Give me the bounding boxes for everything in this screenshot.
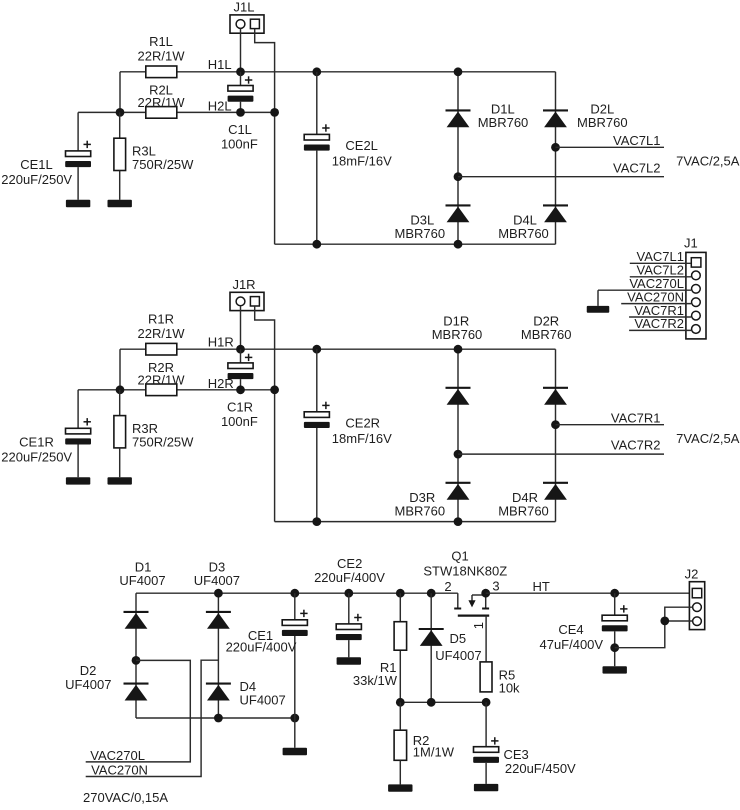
svg-text:750R/25W: 750R/25W [132,435,194,450]
resistor R1 [353,593,407,702]
svg-text:220uF/400V: 220uF/400V [226,640,297,655]
svg-text:270VAC/0,15A: 270VAC/0,15A [83,790,168,805]
junction bottom rail/left column [454,240,463,249]
svg-text:R3L: R3L [132,143,156,158]
svg-text:MBR760: MBR760 [478,115,529,130]
resistor R2R [138,360,186,396]
capacitor CE3 [473,702,576,784]
junction bottom rail/D4 [214,714,223,723]
junction top rail/CE1 [290,589,299,598]
connector J2 pin1 (square) [692,588,701,597]
wire VAC270N tap [86,660,219,776]
svg-text:VAC270N: VAC270N [91,763,148,778]
wire H2R rail [120,389,275,391]
capacitor CE2L [304,72,392,244]
svg-text:1M/1W: 1M/1W [413,745,455,760]
wire J2 pin2 return [615,607,693,648]
capacitor C1L [221,72,258,152]
svg-text:H1L: H1L [208,57,232,72]
diode D2 [65,663,148,701]
svg-text:R1L: R1L [149,34,173,49]
svg-text:CE1L: CE1L [20,157,53,172]
svg-text:CE3: CE3 [504,747,529,762]
capacitor CE4 [539,593,627,666]
diode D3L [395,205,471,241]
diode D1R [432,313,483,404]
svg-text:100nF: 100nF [221,414,258,429]
svg-text:J1L: J1L [234,0,255,15]
svg-text:MBR760: MBR760 [395,503,446,518]
wire/net VAC7R1 to J1 pin5 [629,303,691,318]
junction H1R/CE2R [312,345,321,354]
connector J2 [685,566,705,629]
junction H2L/J1L-pin2 [270,108,279,117]
junction Q1 source/HT [481,589,490,598]
junction top rail/D3 column [214,589,223,598]
svg-text:UF4007: UF4007 [194,573,240,588]
svg-text:J1R: J1R [232,277,255,292]
wire/net VAC270N to J1 pin4 [621,289,691,304]
junction H1L/CE2L [312,67,321,76]
connector J1L [230,0,264,33]
wire left branch vertical [119,72,121,113]
wire bottom rail [136,717,295,719]
label 7VAC/2,5A [676,431,740,446]
svg-text:VAC7R1: VAC7R1 [611,411,661,426]
svg-text:220uF/450V: 220uF/450V [505,761,576,776]
junction top rail/R1 [396,589,405,598]
junction top rail/D5 [427,589,436,598]
svg-text:C1R: C1R [227,399,253,414]
wire/net VAC7R1 [556,411,665,426]
svg-text:CE2: CE2 [337,556,362,571]
wire/net VAC7R2 [458,438,664,454]
svg-text:STW18NK80Z: STW18NK80Z [423,564,507,579]
ground CE1 [283,748,307,755]
wire to CE1L [78,111,120,113]
resistor R3L [114,112,194,199]
connector J2 pins 2-3 (circles) [693,603,702,626]
diode D5 [419,593,482,702]
wire VAC270L to ground [597,290,599,306]
junction H1R/C1R [236,345,245,354]
resistor R3R [114,390,194,477]
wire left branch vertical [119,349,121,390]
svg-text:J2: J2 [685,566,699,581]
svg-text:3: 3 [492,578,499,593]
svg-text:18mF/16V: 18mF/16V [332,153,392,168]
junction bridge output VAC7R2 [454,450,463,459]
junction bottom rail/left column [454,517,463,526]
svg-text:C1L: C1L [228,122,252,137]
svg-text:MBR760: MBR760 [498,503,549,518]
connector J1 pins 2-6 (circles) [692,271,701,333]
wire/net VAC7L2 to J1 pin2 [630,263,691,278]
diode D3R [395,483,471,519]
resistor R1R [138,311,186,355]
connector J1R [230,277,264,310]
svg-text:UF4007: UF4007 [119,573,165,588]
svg-text:220uF/400V: 220uF/400V [314,570,385,585]
ground CE4 [603,666,627,673]
junction H2R/C1R [236,385,245,394]
capacitor C1R [221,349,258,429]
svg-text:D5: D5 [450,631,467,646]
wire top rail (bridge to Q1 gate) [136,592,458,594]
junction top rail/left column [454,345,463,354]
node H1R [208,335,234,350]
wire bridge column D3/D4 [217,593,219,718]
wire H1R rail [120,348,556,350]
svg-text:VAC270L: VAC270L [90,748,145,763]
diode D4L [498,205,568,241]
junction bottom rail/CE2R [312,517,321,526]
resistor R2L [138,83,186,119]
wire bridge left column [457,349,459,521]
svg-text:R3R: R3R [132,421,158,436]
ground CE3 [474,784,498,791]
node H2L [208,99,232,114]
ground R2 [388,784,412,791]
svg-text:750R/25W: 750R/25W [132,157,194,172]
svg-text:22R/1W: 22R/1W [138,373,186,388]
svg-text:CE2R: CE2R [345,416,380,431]
svg-text:22R/1W: 22R/1W [138,326,186,341]
junction J2 return [660,617,669,626]
capacitor CE1 [226,593,308,748]
svg-text:22R/1W: 22R/1W [138,95,186,110]
svg-text:VAC7L1: VAC7L1 [613,133,660,148]
wire/net VAC7R2 to J1 pin6 [629,316,691,331]
wire VAC270L tap [86,660,191,762]
diode D1L [446,102,529,130]
wire bottom rail [275,243,556,245]
transistor Q1 labels [423,549,507,579]
junction row/R5 [482,698,491,707]
junction CE4/J2 return [610,643,619,652]
svg-text:18mF/16V: 18mF/16V [332,431,392,446]
junction H2R/J1R-pin2 [270,385,279,394]
svg-text:220uF/250V: 220uF/250V [1,172,72,187]
capacitor CE2 [314,556,385,657]
resistor R5 [480,662,520,695]
wire/net VAC270L to J1 pin3 [598,276,691,291]
junction bridge output VAC7L1 [551,143,560,152]
junction D1/D2 (VAC270L tap) [132,656,141,665]
node H2R [208,376,234,391]
svg-text:HT: HT [533,579,550,594]
wire J1R pin2 down-right-down to bottom rail [255,306,275,522]
svg-text:220uF/250V: 220uF/250V [1,450,72,465]
junction H2L/C1L [236,108,245,117]
diode D1 [119,560,165,629]
label 7VAC/2,5A [676,153,740,168]
transistor Q1 channel bar [458,614,489,616]
diode D4R [498,483,568,519]
svg-text:VAC7R2: VAC7R2 [611,438,661,453]
svg-text:MBR760: MBR760 [395,226,446,241]
junction left branch [116,108,125,117]
svg-text:CE4: CE4 [558,622,583,637]
svg-text:22R/1W: 22R/1W [138,49,186,64]
wire H1L rail [120,71,556,73]
svg-text:UF4007: UF4007 [65,677,111,692]
junction top rail/left column [454,67,463,76]
connector J1 [684,236,706,339]
svg-text:D2: D2 [80,663,97,678]
svg-text:CE2L: CE2L [345,138,378,153]
wire/net HT [486,579,690,594]
wire to CE1R [78,389,120,391]
svg-text:J1: J1 [684,236,698,251]
svg-text:Q1: Q1 [451,549,468,564]
ground CE1R [66,477,90,484]
wire bridge column D1/D2 [135,593,137,718]
wire bridge right column [555,349,557,521]
node H1L [208,57,232,72]
resistor R1L [138,34,186,78]
svg-text:CE1R: CE1R [19,435,54,450]
junction bridge output VAC7L2 [454,172,463,181]
ground CE1L [66,200,90,207]
label 270VAC/0,15A [83,790,168,805]
wire J1L pin2 down-right-down to bottom rail [255,29,275,245]
svg-text:7VAC/2,5A: 7VAC/2,5A [676,153,740,168]
svg-text:UF4007: UF4007 [240,692,286,707]
net VAC270L [90,748,145,763]
ground at J1 VAC270L [587,306,610,313]
transistor Q1 gate lead (pin 1) [471,616,486,662]
wire J2 pin3 return [665,620,693,622]
svg-text:47uF/400V: 47uF/400V [539,637,603,652]
junction top rail/CE2 [344,589,353,598]
wire J1R pin1 to H1R [240,306,242,349]
diode D2L [543,102,628,130]
wire bridge left column [457,72,459,244]
svg-text:MBR760: MBR760 [498,226,549,241]
junction left branch [116,385,125,394]
svg-text:33k/1W: 33k/1W [353,673,398,688]
svg-text:MBR760: MBR760 [432,327,483,342]
wire bridge right column [555,72,557,244]
svg-text:VAC7L2: VAC7L2 [613,160,660,175]
wire bottom rail [275,521,556,523]
resistor R2 [394,702,455,784]
junction row/D5 [427,698,436,707]
transistor Q1 drain lead [454,593,461,608]
wire J1L pin1 to H1L [240,28,242,71]
capacitor CE1L [1,112,91,199]
pin 3 label [492,578,499,593]
transistor Q1 body arrow [468,595,485,607]
connector J1 pin1 (square) [691,258,701,267]
ground R3L [108,200,132,207]
wire/net VAC7L2 [458,160,664,176]
wire/net VAC7L1 [556,133,665,148]
junction H1L/C1L [236,67,245,76]
svg-text:MBR760: MBR760 [521,327,572,342]
svg-text:H1R: H1R [208,335,234,350]
net VAC270N [91,763,148,778]
junction row/R1 [396,698,405,707]
capacitor CE1R [1,390,91,477]
svg-text:1: 1 [471,622,486,629]
svg-text:2: 2 [444,579,451,594]
wire H2L rail [120,111,275,113]
junction bottom rail/CE2L [312,240,321,249]
diode D4 [206,679,286,708]
pin 2 label [444,579,451,594]
junction bridge output VAC7R1 [551,420,560,429]
ground CE2 [337,657,361,664]
junction bottom rail/CE1 [290,714,299,723]
ground R3R [108,477,132,484]
transistor Q1 source lead [482,593,489,608]
svg-text:7VAC/2,5A: 7VAC/2,5A [676,431,740,446]
diode D3 [194,560,240,629]
svg-text:R1R: R1R [148,311,174,326]
junction HT/CE4 [610,589,619,598]
wire R1/D5/R5 junction row [400,701,486,703]
wire/net VAC7L1 to J1 pin1 [630,249,691,264]
svg-text:MBR760: MBR760 [577,115,628,130]
capacitor CE2R [304,349,392,521]
svg-text:UF4007: UF4007 [435,648,481,663]
svg-text:100nF: 100nF [221,136,258,151]
svg-text:VAC7R2: VAC7R2 [634,316,684,331]
diode D2R [521,313,572,404]
svg-text:10k: 10k [499,680,520,695]
